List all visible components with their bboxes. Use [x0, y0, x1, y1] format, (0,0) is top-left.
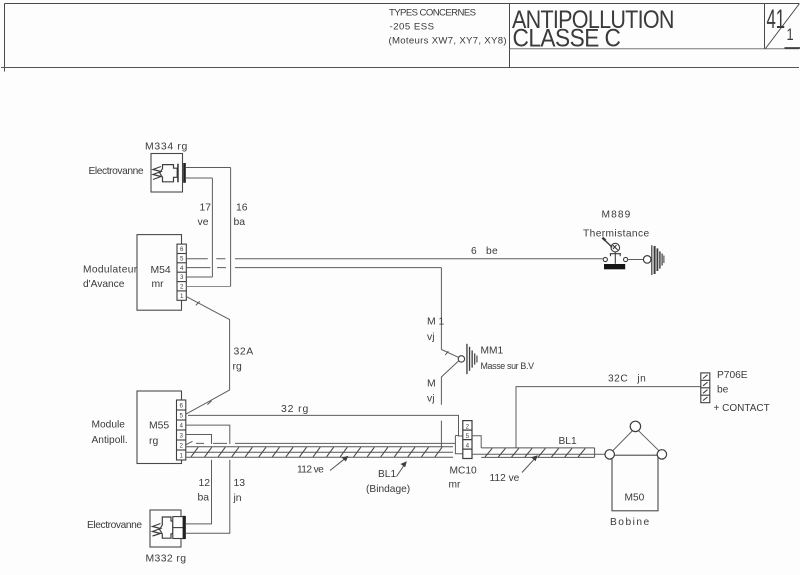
- svg-text:ba: ba: [198, 493, 210, 504]
- electrovanne M334 coil: [153, 167, 161, 180]
- svg-text:Masse sur B.V: Masse sur B.V: [481, 361, 535, 371]
- wire 32C jn: [516, 387, 701, 448]
- MC10 left bracket: [455, 436, 462, 454]
- svg-text:Modulateur: Modulateur: [83, 265, 138, 276]
- wire 16 ba vertical: [230, 168, 232, 287]
- svg-text:rg: rg: [149, 436, 158, 447]
- svg-text:3: 3: [179, 432, 183, 439]
- svg-text:P706E: P706E: [717, 370, 748, 381]
- header text TYPES CONCERNES: [389, 8, 507, 47]
- bobine top circle: [630, 421, 640, 431]
- svg-text:12: 12: [199, 478, 211, 489]
- svg-text:5: 5: [180, 256, 184, 263]
- title block frame: [1, 4, 800, 72]
- svg-text:vj: vj: [427, 394, 435, 405]
- thermistance mounting bar: [604, 264, 625, 269]
- wire into masse MM1 upper diagonal: [441, 350, 458, 358]
- svg-text:4: 4: [466, 442, 470, 449]
- svg-text:Antipoll.: Antipoll.: [92, 435, 128, 446]
- bobine left circle: [605, 450, 614, 459]
- svg-text:BL1: BL1: [378, 469, 396, 480]
- svg-text:M334 rg: M334 rg: [145, 142, 188, 153]
- svg-text:+ CONTACT: + CONTACT: [714, 403, 770, 414]
- wire MM1 lower diagonal and M vj vertical: [441, 361, 458, 447]
- svg-text:mr: mr: [152, 279, 165, 290]
- header title ANTIPOLLUTION CLASSE C: [512, 6, 674, 53]
- svg-text:5: 5: [179, 412, 183, 419]
- wire 112 ve (M55 pin2 into shield), dashed: [186, 441, 455, 444]
- wire 6 be (M54 pin5 to M889), dashed at crossings: [186, 258, 603, 260]
- shield BL1 left section hatching: [191, 447, 442, 457]
- svg-text:Electrovanne: Electrovanne: [89, 166, 144, 177]
- svg-text:1: 1: [787, 25, 794, 44]
- wire 112 ve (MC10 to bobine) through shield: [472, 453, 605, 455]
- electrovanne M332 connector cells: [173, 517, 186, 539]
- svg-text:112 ve: 112 ve: [490, 473, 520, 484]
- svg-text:4: 4: [179, 422, 183, 429]
- shield BL1 left section outline: [187, 447, 454, 458]
- svg-text:4: 4: [180, 265, 184, 272]
- svg-text:1: 1: [180, 293, 184, 300]
- svg-text:(Bindage): (Bindage): [366, 484, 410, 495]
- svg-text:16: 16: [236, 203, 248, 214]
- wire 32A rg (M54 pin1 to M55 pin5): [186, 297, 230, 415]
- svg-text:5: 5: [466, 433, 470, 440]
- modulateur M54 box: [137, 235, 182, 311]
- svg-text:112 ve: 112 ve: [297, 464, 324, 475]
- wire M54 pin3 stub to 17ve: [186, 276, 212, 278]
- wire 13 jn (M55 pin4 to M332): [186, 425, 230, 533]
- svg-text:41: 41: [767, 4, 786, 34]
- wire M54 pin2 stub to 16ba: [186, 286, 230, 288]
- connector strip M54: [177, 244, 186, 300]
- wire 32 rg (M55 pin5 to MC10): [188, 415, 463, 436]
- svg-text:ve: ve: [198, 217, 209, 228]
- electrovanne M332 valve plug: [160, 517, 173, 538]
- svg-text:M332 rg: M332 rg: [146, 553, 187, 564]
- svg-text:be: be: [717, 385, 729, 396]
- bobine triangle left side: [613, 431, 633, 451]
- electrovanne M334 box: [151, 154, 183, 193]
- svg-text:6 be: 6 be: [471, 246, 498, 257]
- svg-text:M889: M889: [602, 210, 632, 221]
- svg-text:ba: ba: [234, 217, 246, 228]
- svg-text:6: 6: [179, 402, 183, 409]
- shield BL1 right section hatching: [485, 448, 585, 457]
- svg-text:MC10: MC10: [450, 466, 478, 477]
- module antipollution M55 box: [137, 391, 182, 464]
- electrovanne M334 contact bars: [177, 164, 179, 183]
- svg-text:32A: 32A: [234, 347, 254, 358]
- wire M334 pin2 to 17ve corner: [186, 177, 212, 179]
- connector P706E: [701, 373, 710, 403]
- wire M334 pin1 to 16ba corner: [186, 167, 231, 169]
- svg-text:jn: jn: [233, 493, 242, 504]
- svg-text:1: 1: [179, 452, 183, 459]
- masse MM1 circle: [458, 356, 464, 362]
- thermistance M889 symbol: [602, 238, 627, 264]
- svg-text:-205 ESS: -205 ESS: [390, 22, 435, 33]
- svg-text:Module: Module: [92, 419, 126, 430]
- svg-text:mr: mr: [449, 479, 461, 490]
- bobine triangle right side: [639, 431, 659, 451]
- masse bars at M889: [651, 245, 664, 275]
- electrovanne M334 valve plug: [160, 165, 177, 182]
- bobine right circle: [657, 450, 666, 459]
- shield BL1 right section outline: [481, 448, 594, 458]
- wire M889 to masse circle: [628, 259, 644, 261]
- svg-text:Thermistance: Thermistance: [583, 229, 650, 240]
- svg-text:M55: M55: [149, 420, 169, 431]
- electrovanne M332 box: [150, 510, 181, 547]
- tick on 32A upper diagonal: [196, 301, 200, 305]
- svg-text:6: 6: [180, 246, 184, 253]
- svg-text:2: 2: [179, 442, 183, 449]
- bobine M50 box: [612, 455, 658, 511]
- svg-text:17: 17: [200, 203, 212, 214]
- svg-text:13: 13: [234, 478, 246, 489]
- MC10 pin numbers: [466, 423, 470, 449]
- masse circle at M889: [643, 256, 651, 264]
- svg-text:M50: M50: [625, 493, 645, 504]
- tick on MM1 upper diagonal: [445, 351, 448, 355]
- M54 pin numbers 6..1: [180, 246, 184, 300]
- svg-text:MM1: MM1: [481, 346, 504, 357]
- connector strip M55: [177, 400, 186, 460]
- tick on 32A lower diagonal: [207, 401, 211, 405]
- svg-text:2: 2: [180, 284, 184, 291]
- wire M1 vj (M54 pin4 down to MM1), dashed at crossings: [186, 268, 441, 350]
- svg-text:CLASSE C: CLASSE C: [513, 26, 621, 53]
- wire 12 ba (M55 pin3 to M332): [186, 435, 212, 524]
- svg-text:Bobine: Bobine: [610, 517, 651, 528]
- svg-text:(Moteurs XW7, XY7, XY8): (Moteurs XW7, XY7, XY8): [389, 36, 507, 47]
- svg-text:BL1: BL1: [559, 436, 577, 447]
- svg-text:TYPES CONCERNES: TYPES CONCERNES: [389, 8, 476, 19]
- masse MM1 bars: [466, 344, 477, 374]
- connector MC10: [463, 421, 472, 459]
- svg-text:3: 3: [180, 274, 184, 281]
- svg-text:vj: vj: [427, 332, 435, 343]
- svg-text:32 rg: 32 rg: [281, 404, 309, 415]
- svg-text:32C jn: 32C jn: [608, 374, 646, 385]
- electrovanne M332 coil: [153, 524, 161, 537]
- M55 pin numbers 6..1: [179, 402, 183, 459]
- svg-text:2: 2: [466, 423, 470, 430]
- svg-text:M 1: M 1: [427, 317, 445, 328]
- MC10 right bracket: [472, 436, 481, 448]
- svg-text:d'Avance: d'Avance: [83, 279, 125, 290]
- svg-text:Electrovanne: Electrovanne: [87, 520, 142, 531]
- wire 17 ve vertical: [211, 178, 213, 277]
- svg-text:rg: rg: [233, 362, 242, 373]
- svg-text:M: M: [427, 379, 436, 390]
- svg-text:M54: M54: [151, 265, 171, 276]
